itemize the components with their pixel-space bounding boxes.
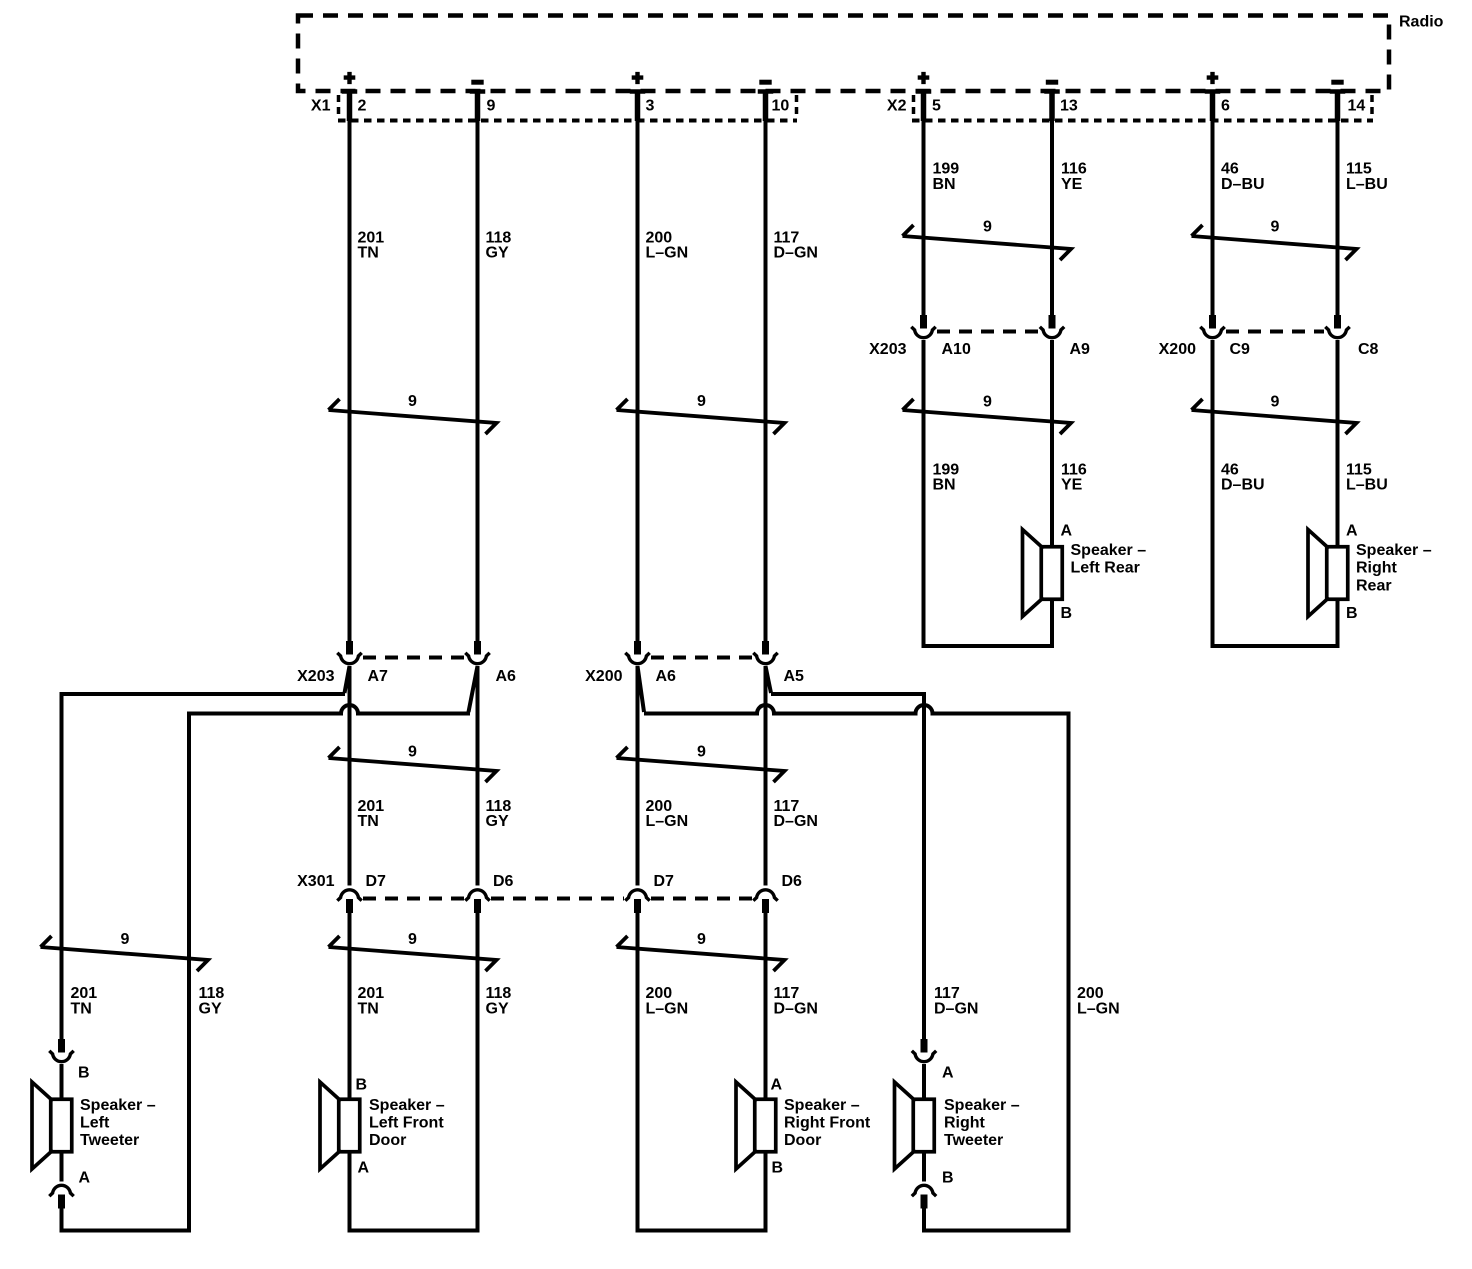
wire label 199 BN upper [933,161,960,194]
connector X203 pin A9 [1049,315,1056,329]
svg-text:Tweeter: Tweeter [80,1132,139,1149]
svg-text:3: 3 [646,98,655,115]
connector X301 dashed line [363,897,752,901]
twisted pair symbol left tweeter [41,936,209,971]
radio pin 6 terminal bar [1205,89,1221,94]
svg-text:117: 117 [774,985,800,1002]
svg-text:TN: TN [358,813,379,830]
svg-text:9: 9 [408,393,417,410]
wire label 117 D-GN upper [774,230,818,262]
svg-text:9: 9 [983,394,992,411]
svg-text:A: A [771,1077,783,1094]
wire label 116 YE lower [1061,462,1087,494]
svg-text:L–BU: L–BU [1346,176,1388,193]
svg-text:A: A [1346,523,1358,540]
svg-text:D–GN: D–GN [774,1001,818,1018]
wire 115 L-BU from pin 14 [1336,93,1340,315]
wire label 200 L-GN tweeter [1077,985,1120,1018]
wire 117 D-GN from pin 10 [764,93,768,641]
svg-text:9: 9 [697,931,706,948]
radio pin 2 stub [347,91,353,121]
wire right front door bottom [636,1154,768,1231]
label Speaker - Left Tweeter [80,1097,156,1149]
svg-text:6: 6 [1221,98,1230,115]
svg-text:D6: D6 [782,873,803,890]
connector X200 pin A5 [762,641,769,655]
wire 201 TN down to X301 [348,666,352,886]
radio pin 10 stub [763,91,769,121]
svg-text:A7: A7 [368,668,389,685]
twisted pair symbol rear left upper [903,225,1072,260]
radio pin 10 minus sign [759,80,771,85]
inline connector left tweeter B [58,1039,65,1053]
svg-text:A10: A10 [942,341,971,358]
svg-text:BN: BN [933,176,956,193]
svg-text:C8: C8 [1358,341,1379,358]
svg-text:201: 201 [358,985,385,1002]
connector X203 pin A6 [474,641,481,655]
svg-text:9: 9 [697,744,706,761]
svg-text:L–GN: L–GN [646,245,689,262]
svg-text:117: 117 [934,985,960,1002]
svg-text:B: B [356,1077,368,1094]
svg-text:X203: X203 [297,668,334,685]
wire from left tweeter A [60,1154,64,1182]
connector X203 pin A7 [346,641,353,655]
connector X203 dashed pair line [937,330,1039,334]
wire label 116 YE upper [1061,161,1087,194]
speaker Left Front Door symbol [320,1082,360,1169]
wire 200 L-GN from pin 3 [636,93,640,641]
svg-text:Right: Right [944,1115,986,1132]
radio pin 2 terminal bar [342,89,358,94]
connector X203 mid dashed pair line [363,656,464,660]
radio pin 6 stub [1210,91,1216,121]
twisted pair symbol rear right upper [1192,225,1357,260]
radio pin 3 plus sign [632,72,644,84]
svg-text:9: 9 [1271,219,1280,236]
svg-text:118: 118 [486,985,512,1002]
svg-text:X2: X2 [887,98,907,115]
svg-text:GY: GY [486,813,509,830]
wire label 117 D-GN door [774,985,818,1018]
svg-text:YE: YE [1061,477,1083,494]
svg-text:Left: Left [80,1115,110,1132]
wire 118 GY from pin 9 [476,93,480,641]
svg-text:B: B [1061,605,1073,622]
connector X301 pin D7 right [625,890,649,901]
svg-text:D–BU: D–BU [1221,477,1265,494]
svg-text:L–GN: L–GN [646,813,689,830]
svg-text:46: 46 [1221,161,1239,178]
twisted pair symbol rear right lower [1192,399,1357,434]
radio pin 6 plus sign [1207,72,1219,84]
radio pin 5 plus sign [918,72,930,84]
svg-text:200: 200 [1077,985,1104,1002]
wire 46 D-BU to right rear speaker B [1213,340,1338,646]
svg-text:A: A [1061,523,1073,540]
label Speaker - Left Front Door [369,1097,445,1149]
wire 201 TN from pin 2 [348,93,352,641]
wire from right tweeter B [922,1154,926,1182]
radio pin 5 stub [921,91,927,121]
svg-text:YE: YE [1061,176,1083,193]
svg-text:D–GN: D–GN [934,1001,978,1018]
wire 199 BN from pin 5 [922,93,926,315]
radio pin 10 terminal bar [758,89,774,94]
inline connector left tweeter A [49,1185,73,1196]
svg-text:Right Front: Right Front [784,1115,871,1132]
twisted pair symbol front right lower [617,936,785,971]
wire label 201 TN tweeter [71,985,98,1018]
connector X301 pin D6 right [753,890,777,901]
wire label 46 D-BU lower [1221,462,1265,494]
svg-text:X200: X200 [585,668,622,685]
svg-text:X1: X1 [311,98,331,115]
wire 116 YE from pin 13 [1050,93,1054,315]
svg-text:9: 9 [1271,394,1280,411]
radio pin 14 minus sign [1331,80,1343,85]
connector X301 pin D6 left [465,890,489,901]
wire branch 200 L-GN to right tweeter [638,666,1069,1231]
svg-text:A: A [79,1170,91,1187]
wire 118 GY to left front door loop [476,913,480,1231]
wire label 200 L-GN upper [646,230,689,262]
svg-text:13: 13 [1060,98,1078,115]
wire left front door bottom [348,1154,480,1231]
svg-text:A6: A6 [496,668,517,685]
wire 199 BN to left rear speaker B [924,340,1053,646]
svg-text:D–GN: D–GN [774,813,818,830]
connector X1 strip [338,95,797,121]
wire to left tweeter B [60,1064,64,1098]
svg-text:D7: D7 [366,873,387,890]
svg-text:Speaker –: Speaker – [784,1097,860,1114]
svg-text:B: B [78,1065,90,1082]
radio pin 9 terminal bar [470,89,486,94]
radio pin 2 plus sign [344,72,356,84]
label Speaker - Right Tweeter [944,1097,1020,1149]
radio pin 13 stub [1049,91,1055,121]
wire to right tweeter A [922,1064,926,1098]
twisted pair symbol front right upper [617,399,785,434]
svg-text:X200: X200 [1159,341,1196,358]
svg-text:A: A [942,1065,954,1082]
svg-text:9: 9 [487,98,496,115]
svg-text:TN: TN [358,245,379,262]
svg-text:C9: C9 [1230,341,1251,358]
svg-text:Door: Door [369,1132,406,1149]
svg-text:D–BU: D–BU [1221,176,1265,193]
svg-text:Rear: Rear [1356,577,1392,594]
svg-text:5: 5 [932,98,941,115]
svg-text:B: B [772,1160,784,1177]
wire label 200 L-GN door [646,985,689,1018]
wire label 117 D-GN mid [774,798,818,830]
label Speaker - Left Rear [1071,542,1147,577]
svg-text:A9: A9 [1070,341,1091,358]
twisted pair symbol front right mid [617,747,785,782]
radio pin 9 minus sign [471,80,483,85]
radio pin 5 terminal bar [916,89,932,94]
wire 117 D-GN to right front door speaker [764,913,768,1098]
wire 116 YE to left rear speaker A [1050,340,1054,545]
svg-text:199: 199 [933,161,960,178]
speaker Left Rear symbol [1023,530,1063,617]
svg-text:Speaker –: Speaker – [1071,542,1147,559]
svg-text:Left Rear: Left Rear [1071,560,1140,577]
svg-text:X301: X301 [297,873,334,890]
wire label 201 TN door [358,985,385,1018]
svg-text:Door: Door [784,1132,821,1149]
wire branch 118 GY to left tweeter [189,666,478,1231]
wire 46 D-BU from pin 6 [1211,93,1215,315]
radio pin 14 stub [1335,91,1341,121]
svg-text:118: 118 [199,985,225,1002]
connector X200 dashed pair line [1226,330,1324,334]
svg-text:TN: TN [358,1001,379,1018]
wire label 201 TN upper [358,230,385,262]
svg-text:GY: GY [199,1001,222,1018]
speaker Right Tweeter symbol [895,1082,935,1169]
inline connector right tweeter B [912,1185,936,1196]
connector X203 pin A10 [920,315,927,329]
svg-text:Tweeter: Tweeter [944,1132,1003,1149]
radio pin 3 stub [635,91,641,121]
twisted pair symbol front left lower [329,936,497,971]
twisted pair symbol front left upper [329,399,497,434]
svg-text:D7: D7 [654,873,675,890]
connector X200 pin C8 [1334,315,1341,329]
svg-text:GY: GY [486,245,509,262]
wire 118 GY down to X301 [476,666,480,886]
wire label 117 D-GN tweeter [934,985,978,1018]
radio pin 3 terminal bar [630,89,646,94]
twisted pair symbol front left mid [329,747,497,782]
svg-text:A5: A5 [784,668,805,685]
wire label 200 L-GN mid [646,798,689,830]
svg-text:9: 9 [983,219,992,236]
radio pin 14 terminal bar [1330,89,1346,94]
svg-text:L–GN: L–GN [646,1001,689,1018]
svg-text:200: 200 [646,985,673,1002]
wire 117 D-GN down to X301 [764,666,768,886]
radio pin 9 stub [475,91,481,121]
speaker Right Rear symbol [1308,530,1348,617]
svg-text:D6: D6 [493,873,514,890]
svg-text:14: 14 [1348,98,1366,115]
svg-text:Left Front: Left Front [369,1115,444,1132]
wire label 118 GY mid [486,798,512,830]
connector X200 pin A6 [634,641,641,655]
connector X301 pin D7 left [337,890,361,901]
svg-text:GY: GY [486,1001,509,1018]
svg-text:Speaker –: Speaker – [1356,542,1432,559]
wire label 115 L-BU upper [1346,161,1388,194]
wire left tweeter bottom [60,1209,192,1231]
svg-text:BN: BN [933,477,956,494]
radio pin 13 minus sign [1046,80,1058,85]
svg-text:10: 10 [772,98,790,115]
wire label 199 BN lower [933,462,960,494]
svg-text:L–BU: L–BU [1346,477,1388,494]
svg-text:TN: TN [71,1001,92,1018]
label Speaker - Right Front Door [784,1097,871,1149]
label Speaker - Right Rear [1356,542,1432,594]
svg-text:Radio: Radio [1399,14,1444,31]
speaker Right Front Door symbol [736,1082,776,1169]
wire branch 117 D-GN to right tweeter [766,666,925,1039]
wire label 115 L-BU lower [1346,462,1388,494]
svg-text:Right: Right [1356,560,1398,577]
svg-text:B: B [1346,605,1358,622]
svg-text:115: 115 [1346,161,1372,178]
svg-text:Speaker –: Speaker – [944,1097,1020,1114]
svg-text:9: 9 [408,744,417,761]
wire 200 L-GN down to X301 [636,666,640,886]
twisted pair symbol rear left lower [903,399,1072,434]
wire 200 L-GN to right front door loop [636,913,640,1231]
svg-text:Speaker –: Speaker – [369,1097,445,1114]
svg-text:D–GN: D–GN [774,245,818,262]
speaker Left Tweeter symbol [32,1082,72,1169]
radio pin 13 terminal bar [1044,89,1060,94]
svg-text:116: 116 [1061,161,1087,178]
svg-text:A: A [358,1160,370,1177]
radio dashed box [298,16,1389,92]
connector X2 strip [912,95,1373,121]
wire label 201 TN mid [358,798,385,830]
wire right tweeter bottom [922,1209,1071,1231]
wire label 118 GY upper [486,230,512,262]
svg-text:201: 201 [71,985,98,1002]
wire label 118 GY tweeter [199,985,225,1018]
svg-text:9: 9 [408,931,417,948]
wire label 46 D-BU upper [1221,161,1265,194]
wire label 118 GY door [486,985,512,1018]
svg-text:Speaker –: Speaker – [80,1097,156,1114]
wire 201 TN to left front door speaker [348,913,352,1098]
svg-text:9: 9 [697,393,706,410]
svg-text:B: B [942,1170,954,1187]
svg-text:L–GN: L–GN [1077,1001,1120,1018]
svg-text:9: 9 [121,931,130,948]
svg-text:2: 2 [358,98,367,115]
wire 115 L-BU to right rear speaker A [1336,340,1340,545]
connector X200 mid dashed pair line [651,656,752,660]
svg-text:X203: X203 [869,341,906,358]
connector X200 pin C9 [1209,315,1216,329]
wire branch 201 TN to left tweeter [62,666,350,1039]
inline connector right tweeter A [921,1039,928,1053]
svg-text:A6: A6 [656,668,677,685]
